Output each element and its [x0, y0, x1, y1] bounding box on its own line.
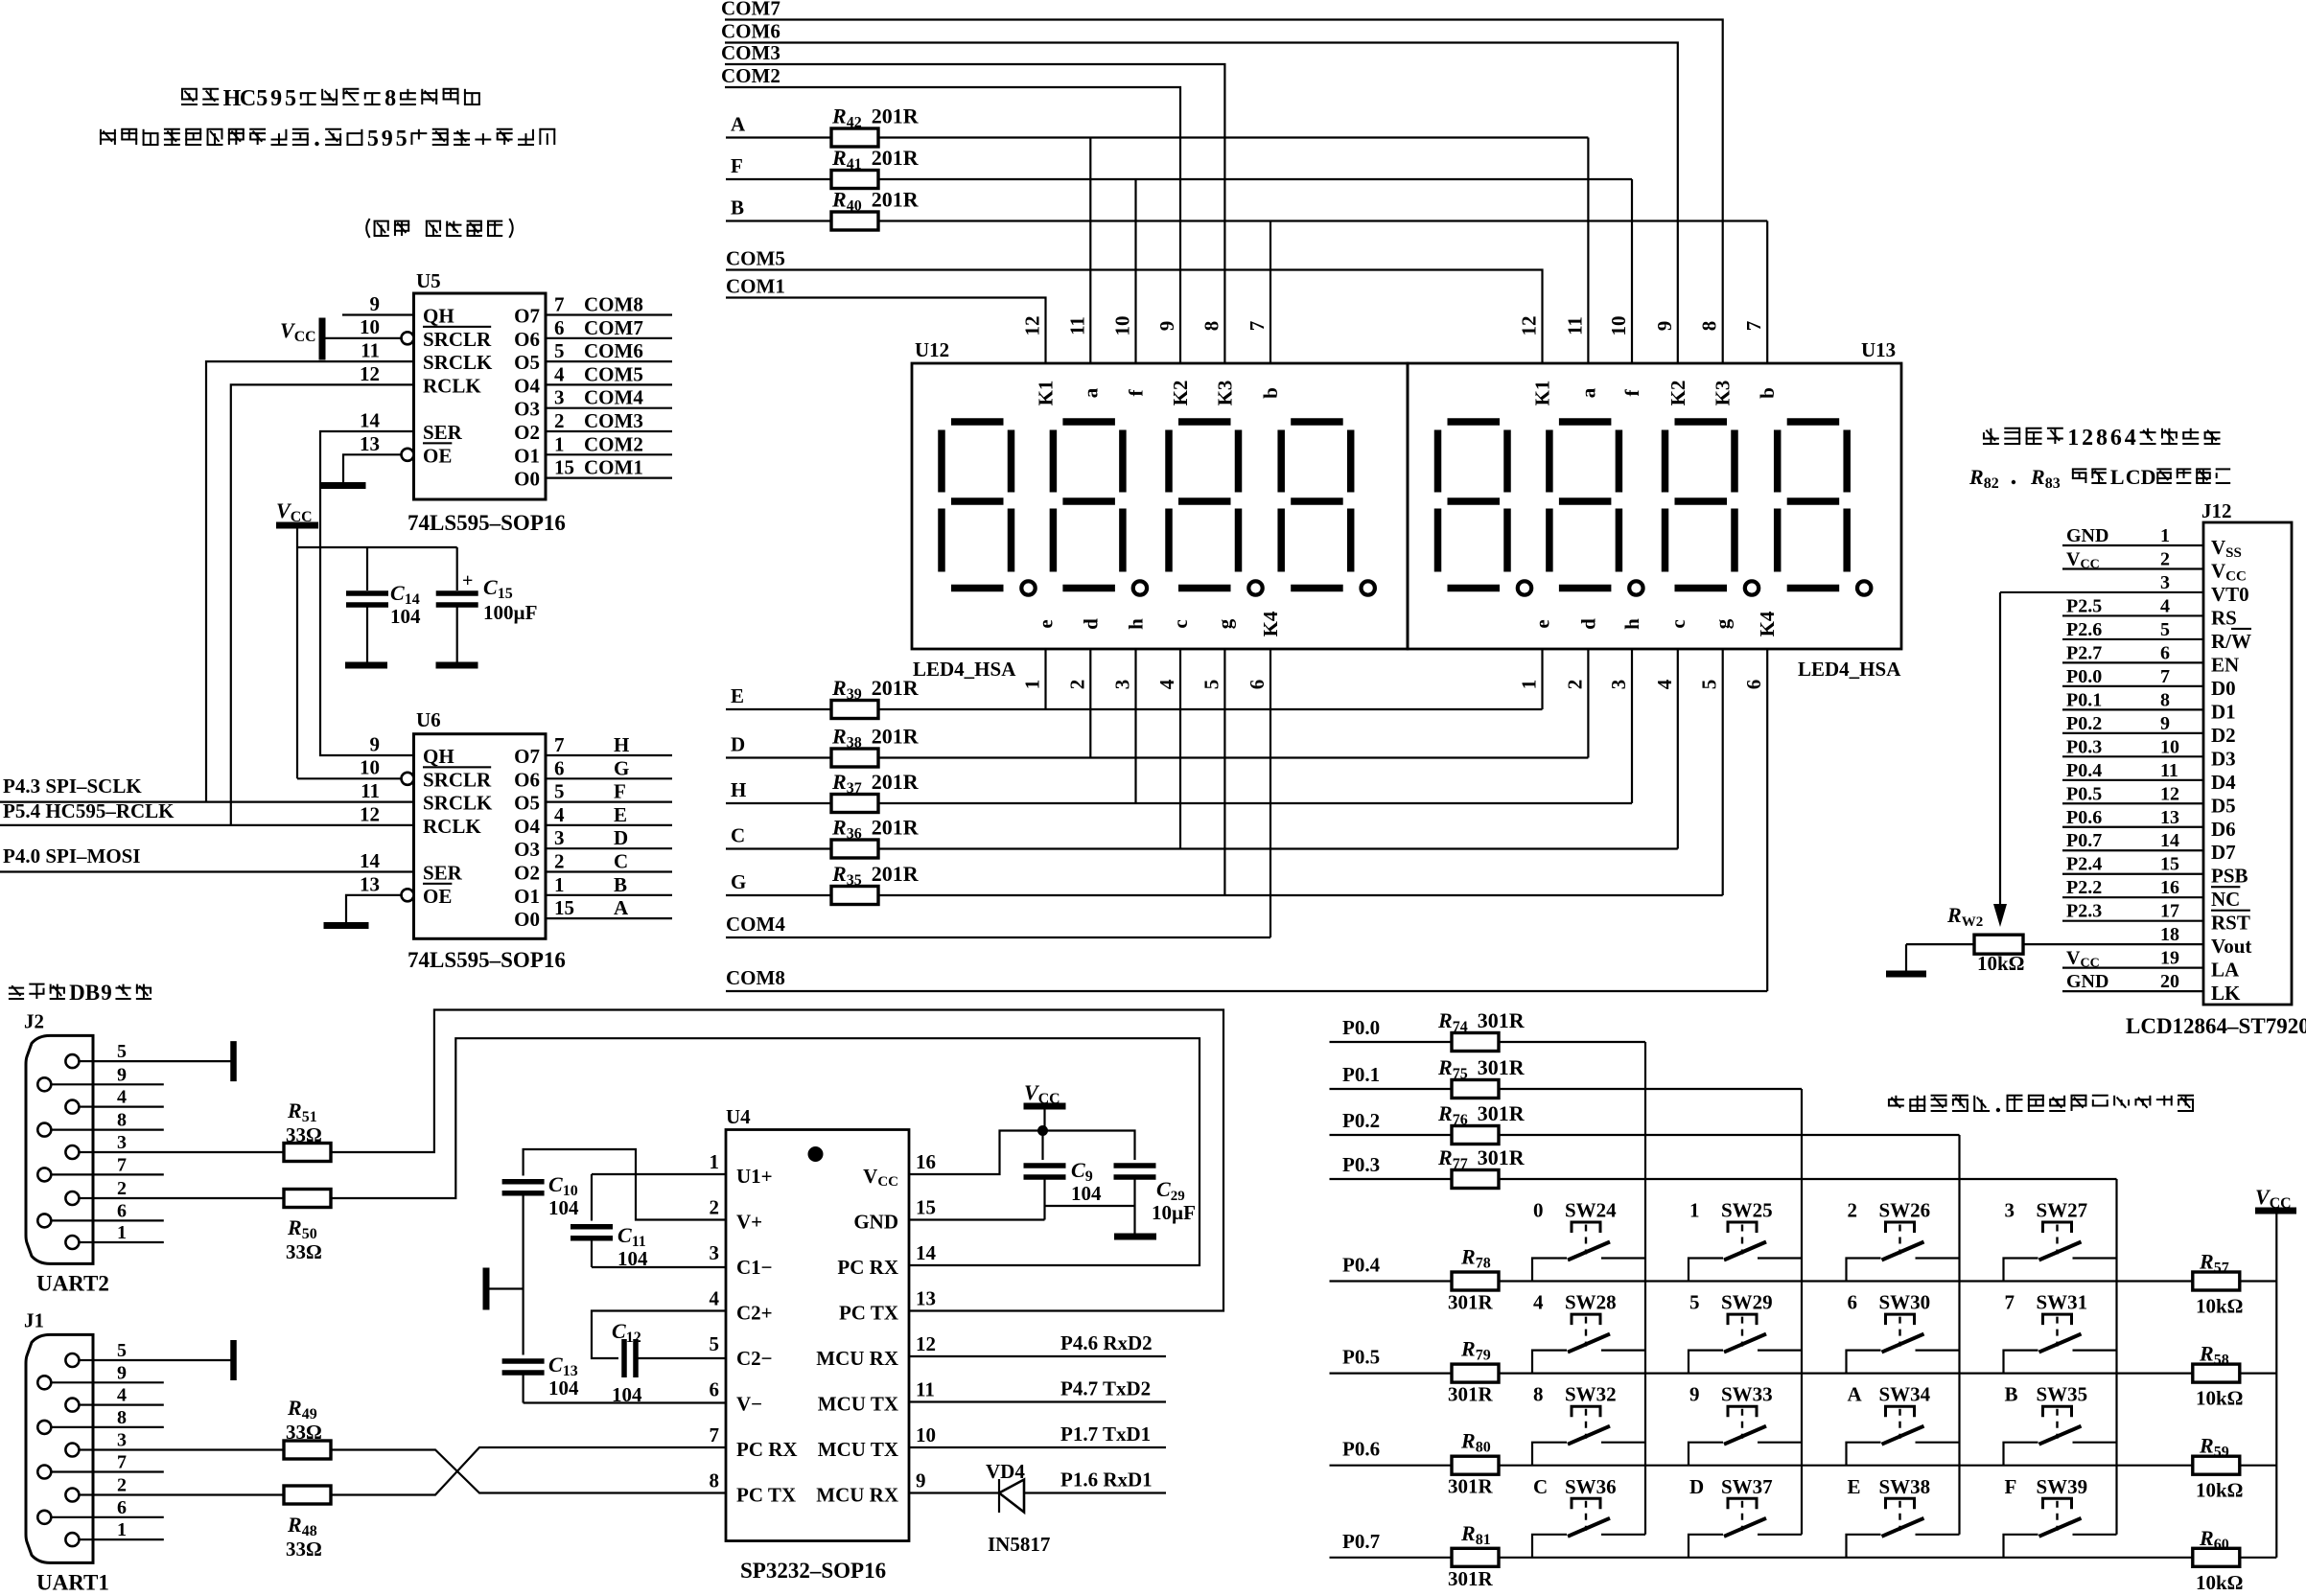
- node COM3: [721, 41, 1224, 363]
- digit U13 d3: [1665, 422, 1759, 595]
- svg-text:F: F: [731, 154, 743, 177]
- note title line1: [181, 86, 480, 111]
- pin J12 10 D3: [2062, 736, 2236, 770]
- svg-text:SW29: SW29: [1721, 1291, 1773, 1314]
- capacitor C15 100uF: [436, 547, 538, 663]
- switch SW39: [2004, 1475, 2117, 1558]
- capacitor C11 104: [571, 1174, 726, 1270]
- wire U6 pin 10 SRCLR vcc: [297, 756, 402, 779]
- svg-text:14: 14: [2160, 830, 2179, 851]
- wire R51 to U4 PC TX: [331, 1010, 1223, 1311]
- node COM5: [726, 247, 1543, 364]
- svg-text:G: G: [614, 756, 629, 779]
- svg-text:3: 3: [554, 826, 565, 849]
- node COM8: [726, 966, 1767, 991]
- svg-text:O7: O7: [514, 745, 540, 768]
- svg-text:0: 0: [1533, 1199, 1544, 1222]
- wire J2 pin8 stub: [93, 1128, 164, 1130]
- note LCD line1: [1983, 426, 2221, 451]
- svg-text:K1: K1: [1035, 381, 1058, 406]
- svg-text:4: 4: [1653, 679, 1676, 689]
- svg-text:P2.4: P2.4: [2066, 854, 2102, 875]
- pin U4 2: [710, 1196, 720, 1219]
- pin J12 11 D4: [2062, 760, 2236, 794]
- svg-text:C: C: [614, 850, 628, 873]
- wire U5 pin 9 QH: [342, 292, 414, 315]
- svg-text:LK: LK: [2211, 982, 2241, 1005]
- pin U4 12: [916, 1332, 936, 1355]
- resistor R36 201R: [831, 816, 920, 859]
- svg-text:O5: O5: [514, 792, 540, 815]
- svg-text:U4: U4: [726, 1105, 751, 1128]
- svg-text:P0.2: P0.2: [1342, 1109, 1380, 1132]
- svg-text:C: C: [1533, 1475, 1548, 1498]
- pin U4 14: [916, 1241, 937, 1264]
- ground U5 OE: [321, 482, 366, 489]
- resistor R57 10k: [2193, 1250, 2244, 1318]
- pin J12 7 D0: [2062, 666, 2236, 700]
- svg-text:C2−: C2−: [736, 1347, 773, 1370]
- digit U12 d2: [1053, 422, 1147, 595]
- svg-text:C: C: [731, 824, 745, 847]
- pin J1 3: [65, 1430, 127, 1457]
- switch SW25: [1689, 1199, 1802, 1282]
- svg-text:COM6: COM6: [584, 339, 643, 362]
- capacitor C9 104: [909, 1131, 1135, 1220]
- svg-text:EN: EN: [2211, 653, 2239, 676]
- svg-text:O6: O6: [514, 768, 540, 791]
- wire A to U12: [1089, 138, 1091, 364]
- svg-text:P4.3 SPI–SCLK: P4.3 SPI–SCLK: [3, 775, 142, 798]
- svg-text:14: 14: [360, 849, 381, 872]
- svg-text:O7: O7: [514, 305, 540, 328]
- svg-text:P5.4 HC595–RCLK: P5.4 HC595–RCLK: [3, 799, 175, 822]
- svg-text:1: 1: [117, 1519, 127, 1540]
- svg-text:K4: K4: [1259, 611, 1282, 636]
- svg-text:R41201R: R41201R: [831, 146, 920, 173]
- wire F to U12: [1134, 179, 1136, 363]
- svg-text:301R: 301R: [1448, 1291, 1494, 1314]
- svg-text:V+: V+: [736, 1211, 762, 1234]
- wire U4 pin16 VCC: [909, 1131, 1043, 1175]
- svg-text:SW27: SW27: [2037, 1199, 2088, 1222]
- svg-text:RST: RST: [2211, 912, 2250, 935]
- wire U13 bottom pin: [1766, 649, 1768, 991]
- svg-text:10kΩ: 10kΩ: [2196, 1571, 2244, 1591]
- svg-text:R75301R: R75301R: [1437, 1055, 1526, 1082]
- svg-text:GND: GND: [853, 1211, 898, 1234]
- svg-text:R40201R: R40201R: [831, 188, 920, 215]
- wire U12 bottom pin: [1269, 649, 1271, 937]
- node C: [731, 824, 745, 847]
- wire U5 output COM3: [546, 409, 672, 432]
- svg-text:COM5: COM5: [584, 362, 643, 385]
- vcc U4: [1024, 1080, 1066, 1131]
- node vcc junction: [1037, 1125, 1048, 1136]
- svg-text:D: D: [1689, 1475, 1704, 1498]
- svg-text:8: 8: [117, 1407, 127, 1428]
- svg-text:LCD12864–ST7920: LCD12864–ST7920: [2126, 1014, 2306, 1038]
- svg-text:5: 5: [554, 339, 565, 362]
- pin U13 5 g: [1698, 618, 1735, 689]
- svg-text:SRCLR: SRCLR: [423, 768, 492, 791]
- pin J1 2: [65, 1475, 127, 1502]
- svg-text:3: 3: [1111, 680, 1134, 690]
- svg-text:13: 13: [360, 873, 380, 896]
- svg-text:J12: J12: [2201, 499, 2232, 522]
- svg-text:7: 7: [710, 1423, 720, 1446]
- vcc U5 SRCLR: [280, 315, 402, 360]
- svg-text:GND: GND: [2066, 525, 2108, 546]
- svg-text:9: 9: [101, 981, 112, 1005]
- pin J12 3 VT0: [2000, 572, 2249, 606]
- svg-text:SW31: SW31: [2037, 1291, 2088, 1314]
- wire U6 output G: [546, 756, 672, 779]
- svg-text:LA: LA: [2211, 959, 2240, 982]
- wire U5 pin 11 SRCLK: [206, 339, 414, 802]
- svg-text:COM1: COM1: [726, 275, 785, 298]
- svg-text:O2: O2: [514, 421, 540, 444]
- svg-text:MCU RX: MCU RX: [816, 1484, 898, 1507]
- ground C29: [1114, 1234, 1156, 1240]
- svg-text:C: C: [2126, 465, 2141, 489]
- svg-text:P0.7: P0.7: [2066, 830, 2102, 851]
- node P4.3 SPI-SCLK: [0, 775, 414, 802]
- svg-text:P2.3: P2.3: [2066, 901, 2102, 922]
- svg-text:9: 9: [1155, 321, 1178, 332]
- svg-text:4: 4: [710, 1287, 720, 1310]
- pin J2 4: [65, 1087, 127, 1114]
- svg-text:17: 17: [2160, 901, 2179, 922]
- svg-text:11: 11: [2160, 760, 2178, 781]
- svg-text:A: A: [731, 113, 746, 136]
- digit U13 d2: [1549, 422, 1643, 595]
- pin U12 4 c: [1155, 619, 1192, 689]
- svg-text:O1: O1: [514, 885, 540, 908]
- pin U4 1: [710, 1150, 720, 1173]
- node COM1: [726, 275, 1046, 364]
- svg-text:P0.6: P0.6: [2066, 807, 2102, 828]
- svg-text:D5: D5: [2211, 794, 2236, 817]
- wire J1 pin1 stub: [93, 1538, 164, 1540]
- switch SW31: [2004, 1291, 2117, 1374]
- pin J12 14 D7: [2062, 830, 2236, 864]
- svg-text:10: 10: [360, 315, 380, 338]
- svg-text:D: D: [69, 981, 85, 1005]
- wire J2 pin4 stub: [93, 1105, 164, 1107]
- pin J2 6: [37, 1200, 127, 1227]
- svg-text:VD4: VD4: [986, 1460, 1025, 1483]
- wire R49 to U4 PC TX1 (crossover): [331, 1450, 726, 1493]
- wire keypad column 4: [2115, 1179, 2117, 1535]
- node COM6: [721, 20, 1678, 364]
- svg-text:MCU TX: MCU TX: [818, 1393, 898, 1416]
- svg-text:U1+: U1+: [736, 1165, 773, 1188]
- svg-text:c: c: [1169, 619, 1192, 628]
- ground C15: [436, 662, 478, 669]
- svg-text:104: 104: [390, 605, 421, 628]
- svg-text:d: d: [1576, 618, 1599, 630]
- capacitor C13 104: [502, 1353, 726, 1403]
- svg-text:D: D: [2141, 465, 2156, 489]
- wire J1 pin8 stub: [93, 1426, 164, 1428]
- svg-text:R36201R: R36201R: [831, 816, 920, 843]
- pin U13 9 K2: [1653, 321, 1689, 406]
- svg-text:O2: O2: [514, 862, 540, 885]
- svg-text:104: 104: [548, 1196, 579, 1219]
- svg-text:H: H: [223, 86, 242, 111]
- note title line2: [100, 127, 555, 151]
- pin U4 6: [710, 1378, 720, 1401]
- svg-text:5: 5: [2160, 619, 2170, 640]
- svg-text:PC RX: PC RX: [736, 1438, 798, 1461]
- node COM4: [726, 913, 1270, 937]
- svg-text:COM5: COM5: [726, 247, 785, 270]
- svg-text:a: a: [1576, 387, 1599, 398]
- svg-text:4: 4: [1533, 1291, 1544, 1314]
- svg-text:NC: NC: [2211, 888, 2240, 911]
- node D: [731, 733, 745, 756]
- pin J12 12 D5: [2062, 783, 2236, 817]
- svg-text:6: 6: [1246, 680, 1269, 690]
- pin U13 2 d: [1563, 618, 1599, 689]
- wire J1 pin6 stub: [93, 1516, 164, 1518]
- svg-text:K3: K3: [1712, 381, 1735, 406]
- wire U5 output COM4: [546, 386, 672, 409]
- wire U4 pin9 to VD4: [909, 1469, 1166, 1493]
- svg-text:104: 104: [617, 1247, 648, 1270]
- svg-text:a: a: [1079, 387, 1102, 398]
- svg-text:A: A: [1848, 1383, 1863, 1406]
- svg-text:J2: J2: [24, 1009, 44, 1032]
- svg-text:P0.5: P0.5: [1342, 1346, 1380, 1369]
- svg-text:6: 6: [554, 756, 565, 779]
- pin U4 9: [916, 1469, 926, 1492]
- wire U5 pin 14 SER to U6 QH: [320, 409, 414, 756]
- svg-text:GND: GND: [2066, 971, 2108, 992]
- wire U12 bottom pin: [1134, 649, 1136, 803]
- wire U6 output B: [546, 873, 672, 896]
- svg-text:10kΩ: 10kΩ: [2196, 1295, 2244, 1318]
- svg-text:3: 3: [1607, 680, 1630, 690]
- resistor R37 201R: [831, 770, 920, 813]
- svg-text:5: 5: [1698, 680, 1721, 690]
- wire U6 output E: [546, 803, 672, 826]
- resistor R74 301R: [1437, 1008, 1526, 1052]
- svg-text:R77301R: R77301R: [1437, 1145, 1526, 1172]
- svg-text:P0.0: P0.0: [1342, 1016, 1380, 1039]
- wire U5 output COM1: [546, 456, 672, 479]
- pin J12 16 NC: [2062, 877, 2240, 911]
- svg-text:P1.7 TxD1: P1.7 TxD1: [1060, 1423, 1151, 1446]
- svg-text:b: b: [1259, 387, 1282, 399]
- pin U12 2 d: [1065, 618, 1102, 689]
- pin J12 8 D1: [2062, 689, 2236, 723]
- switch SW30: [1847, 1291, 1960, 1374]
- svg-text:h: h: [1125, 618, 1148, 630]
- pin J2 9: [37, 1064, 127, 1091]
- switch SW36: [1532, 1475, 1645, 1558]
- svg-text:e: e: [1531, 619, 1554, 628]
- pin U12 11 a: [1065, 316, 1102, 398]
- pin U13 6 K4: [1742, 611, 1779, 689]
- svg-text:9: 9: [2160, 713, 2170, 734]
- svg-text:4: 4: [554, 362, 565, 385]
- wire H row: [726, 802, 1632, 804]
- wire U12 bottom pin: [1089, 649, 1091, 758]
- svg-text:LED4_HSA: LED4_HSA: [1798, 658, 1901, 681]
- node COM7: [721, 0, 1723, 363]
- display module U13 LED4_HSA: [1408, 338, 1901, 681]
- svg-text:COM6: COM6: [721, 20, 780, 43]
- wire U13 bottom pin: [1631, 649, 1633, 803]
- svg-text:33Ω: 33Ω: [286, 1538, 322, 1561]
- resistor R35 201R: [831, 862, 920, 905]
- inverter bubble U6 SRCLR: [402, 773, 414, 785]
- wire J2 pin9 stub: [93, 1083, 164, 1085]
- svg-text:K2: K2: [1169, 381, 1192, 406]
- svg-text:D3: D3: [2211, 747, 2236, 770]
- svg-text:11: 11: [1065, 316, 1088, 335]
- svg-text:F: F: [614, 780, 626, 803]
- svg-text:COM7: COM7: [721, 0, 780, 20]
- node P0.4: [1330, 1254, 2277, 1282]
- capacitor C14 104: [346, 547, 421, 663]
- svg-text:COM8: COM8: [584, 293, 643, 316]
- node E: [731, 684, 744, 707]
- ic U5 74LS595: [408, 269, 566, 535]
- wire J2 pin6 stub: [93, 1219, 164, 1221]
- svg-text:2: 2: [1065, 680, 1088, 690]
- pin J12 4 RS: [2062, 595, 2237, 629]
- wire U6 output D: [546, 826, 672, 849]
- svg-text:SER: SER: [423, 421, 463, 444]
- svg-text:OE: OE: [423, 444, 452, 467]
- svg-text:7: 7: [554, 733, 565, 756]
- pin J2 3: [65, 1132, 127, 1159]
- svg-text:IN5817: IN5817: [988, 1533, 1050, 1556]
- svg-text:12: 12: [2160, 783, 2179, 804]
- svg-text:K2: K2: [1666, 381, 1689, 406]
- svg-text:3: 3: [710, 1241, 720, 1264]
- resistor R59 10k: [2193, 1434, 2244, 1502]
- pin U4 7: [710, 1423, 720, 1446]
- svg-text:SW39: SW39: [2037, 1475, 2088, 1498]
- switch SW29: [1689, 1291, 1802, 1374]
- wire U13 bottom pin: [1677, 649, 1679, 849]
- note common anode: [366, 219, 512, 238]
- svg-text:5: 5: [1689, 1291, 1700, 1314]
- resistor R49 33ohm: [284, 1396, 331, 1459]
- svg-text:COM1: COM1: [584, 456, 643, 479]
- svg-text:18: 18: [2160, 924, 2179, 945]
- pin U12 8 K3: [1200, 321, 1236, 406]
- svg-text:9: 9: [117, 1064, 127, 1085]
- wire U6 pin 9 number: [370, 733, 381, 756]
- svg-text:P0.1: P0.1: [1342, 1063, 1380, 1086]
- svg-text:P0.7: P0.7: [1342, 1530, 1380, 1553]
- svg-text:SW36: SW36: [1565, 1475, 1617, 1498]
- pin J12 9 D2: [2062, 713, 2236, 747]
- svg-text:1: 1: [1518, 680, 1541, 690]
- svg-text:16: 16: [2160, 877, 2179, 898]
- svg-text:MCU RX: MCU RX: [816, 1347, 898, 1370]
- wire U5 output COM2: [546, 432, 672, 455]
- wire J1 pin9 stub: [93, 1381, 164, 1383]
- svg-text:R39201R: R39201R: [831, 676, 920, 703]
- wire R48 to U4 PC RX1 (crossover): [331, 1447, 726, 1495]
- digit U12 d1: [942, 422, 1036, 595]
- svg-text:7: 7: [1742, 321, 1765, 332]
- pin U4 13: [916, 1287, 936, 1310]
- svg-text:C2+: C2+: [736, 1302, 773, 1325]
- pin U13 10 f: [1607, 316, 1643, 397]
- resistor R39 201R: [831, 676, 920, 719]
- wire J2 pin2 to R50: [93, 1197, 284, 1199]
- wire J12 pin3 to RW2 wiper: [1993, 592, 2007, 927]
- wire vcc rail horizontal: [297, 546, 457, 548]
- resistor R40 201R: [831, 188, 920, 231]
- svg-text:P0.3: P0.3: [2066, 736, 2102, 757]
- svg-text:10µF: 10µF: [1152, 1201, 1196, 1224]
- capacitor C29 10uF: [1043, 1131, 1196, 1235]
- svg-text:9: 9: [270, 86, 282, 111]
- svg-text:SW24: SW24: [1565, 1199, 1617, 1222]
- pin J2 8: [37, 1110, 127, 1137]
- svg-text:P0.6: P0.6: [1342, 1438, 1380, 1461]
- svg-text:E: E: [1848, 1475, 1861, 1498]
- inverter bubble U5 SRCLR: [402, 332, 414, 344]
- svg-text:2: 2: [710, 1196, 720, 1219]
- resistor R80 301R: [1448, 1429, 1499, 1498]
- switch SW26: [1847, 1199, 1960, 1282]
- wire U12 bottom pin: [1223, 649, 1225, 895]
- svg-text:P2.2: P2.2: [2066, 877, 2102, 898]
- resistor R78 301R: [1448, 1245, 1499, 1314]
- note LCD line2: [1968, 465, 2230, 492]
- svg-text:C1−: C1−: [736, 1256, 773, 1279]
- svg-text:7: 7: [117, 1452, 127, 1473]
- svg-text:PC RX: PC RX: [837, 1256, 898, 1279]
- ic U6 74LS595: [408, 708, 566, 972]
- display module U12 LED4_HSA: [912, 338, 1408, 681]
- svg-text:COM7: COM7: [584, 316, 643, 339]
- svg-text:1: 1: [2160, 525, 2170, 546]
- wire U12 bottom pin: [1179, 649, 1181, 849]
- pin U13 11 a: [1563, 316, 1599, 398]
- svg-text:1: 1: [2067, 426, 2079, 451]
- pin J12 18 Vout: [2160, 924, 2251, 958]
- svg-text:COM4: COM4: [726, 913, 785, 936]
- svg-text:SW25: SW25: [1721, 1199, 1773, 1222]
- svg-text:RS: RS: [2211, 606, 2237, 629]
- node P0.5: [1330, 1346, 2277, 1374]
- svg-text:5: 5: [117, 1340, 127, 1361]
- capacitor C12 104: [612, 1319, 726, 1406]
- pin U13 7 b: [1742, 321, 1779, 399]
- svg-text:15: 15: [554, 896, 574, 919]
- pin U4 11: [916, 1378, 935, 1401]
- svg-text:13: 13: [360, 432, 380, 455]
- svg-text:Vout: Vout: [2211, 935, 2251, 958]
- svg-text:+: +: [462, 570, 473, 591]
- pin J12 6 EN: [2062, 642, 2239, 676]
- pin J12 15 PSB: [2062, 854, 2248, 888]
- svg-text:R42201R: R42201R: [831, 104, 920, 131]
- connector J12: [2126, 499, 2306, 1038]
- resistor R51 33ohm: [284, 1099, 331, 1162]
- pin U13 8 K3: [1698, 321, 1735, 406]
